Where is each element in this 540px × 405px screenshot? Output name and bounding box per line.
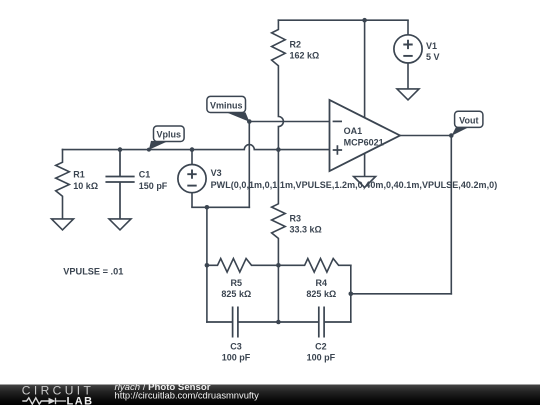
svg-text:825 kΩ: 825 kΩ: [221, 289, 251, 299]
wire branch down to R5 row: [206, 207, 208, 265]
svg-text:33.3 kΩ: 33.3 kΩ: [290, 225, 322, 235]
ground (R1): [52, 219, 74, 230]
svg-text:C2: C2: [315, 341, 327, 351]
capacitor C2: [278, 307, 350, 336]
capacitor C1: [106, 150, 134, 219]
svg-text:Vminus: Vminus: [210, 100, 243, 110]
svg-text:825 kΩ: 825 kΩ: [306, 289, 336, 299]
svg-text:C1: C1: [139, 169, 151, 179]
wire top rail: [278, 19, 408, 21]
wire Vminus vertical: [248, 122, 250, 208]
resistor R2: [272, 20, 286, 149]
node flag Vminus: [207, 96, 250, 121]
svg-text:R2: R2: [290, 40, 302, 50]
svg-text:R3: R3: [290, 213, 302, 223]
svg-text:V1: V1: [426, 41, 437, 51]
svg-text:Vout: Vout: [459, 115, 478, 125]
svg-text:R1: R1: [73, 169, 85, 179]
wire Vplus rail (hops over Vminus column): [63, 145, 330, 150]
node junction dots: [118, 18, 454, 324]
wire R4 right column: [350, 265, 352, 322]
svg-text:C3: C3: [230, 341, 242, 351]
ground (op-amp V-): [354, 177, 376, 188]
svg-text:LAB: LAB: [67, 395, 94, 405]
resistor R4: [278, 259, 350, 273]
node flag Vplus: [147, 126, 184, 152]
CircuitLab logo: [22, 384, 94, 405]
svg-text:V3: V3: [211, 168, 222, 178]
ground (C1): [109, 219, 131, 230]
svg-text:VPULSE = .01: VPULSE = .01: [63, 267, 123, 277]
ground (V1): [397, 89, 419, 100]
svg-text:MCP6021: MCP6021: [344, 137, 384, 147]
svg-text:R4: R4: [316, 278, 328, 288]
svg-text:150 pF: 150 pF: [139, 181, 168, 191]
svg-text:http://circuitlab.com/cdruasmn: http://circuitlab.com/cdruasmnvufty: [115, 389, 260, 400]
svg-text:Vplus: Vplus: [157, 129, 182, 139]
wire op-amp V- drop: [364, 154, 366, 177]
resistor R5: [207, 259, 279, 273]
svg-text:100 pF: 100 pF: [222, 353, 251, 363]
wire feedback tee to output: [351, 293, 452, 295]
wire op-amp output: [400, 135, 451, 137]
voltage source V3: [178, 150, 206, 208]
wire V+ supply drop: [364, 20, 366, 117]
node flag Vout: [452, 111, 483, 136]
wire output vertical: [450, 136, 452, 294]
wire V3 bottom run: [192, 206, 249, 208]
wire R3/R5/R4 node to C row: [277, 265, 279, 322]
svg-text:162 kΩ: 162 kΩ: [290, 50, 320, 60]
wire left column down to C3 row: [206, 265, 208, 322]
resistor R3: [272, 150, 286, 266]
svg-text:PWL(0,0,1m,0,1.1m,VPULSE,1.2m,: PWL(0,0,1m,0,1.1m,VPULSE,1.2m,0,40m,0,40…: [211, 180, 498, 190]
capacitor C3: [207, 307, 279, 336]
svg-text:100 pF: 100 pF: [307, 353, 336, 363]
svg-text:5 V: 5 V: [426, 52, 440, 62]
op-amp OA1: [330, 100, 401, 171]
wire op-amp inverting input (hops over R2/R3 column): [249, 121, 329, 123]
resistor R1: [56, 150, 70, 219]
voltage source V1: [394, 20, 422, 89]
svg-text:10 kΩ: 10 kΩ: [73, 181, 98, 191]
svg-text:R5: R5: [231, 278, 243, 288]
svg-text:OA1: OA1: [344, 126, 363, 136]
